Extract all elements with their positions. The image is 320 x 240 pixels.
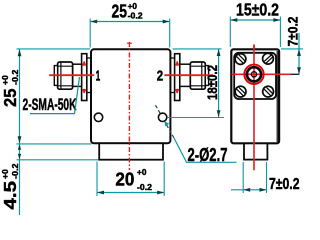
svg-text:18±0.2: 18±0.2 xyxy=(204,65,220,100)
connector J2 centerline xyxy=(164,74,213,76)
dim 7 top right: dimension line xyxy=(298,33,300,74)
front view bottom step xyxy=(99,143,163,159)
dim 20 bottom: dimension line xyxy=(97,192,164,194)
connector J2 end cap xyxy=(205,66,208,86)
screw bottom-right xyxy=(263,86,274,97)
connector J2 flange plate xyxy=(175,54,180,101)
dim 4.5 left: arrows xyxy=(18,144,21,150)
front view body outline xyxy=(91,49,170,143)
dim 25 left: dimension line xyxy=(19,49,21,215)
svg-text:7±0.2: 7±0.2 xyxy=(285,16,301,46)
connector J2 hex chamfer xyxy=(201,63,203,89)
svg-text:-0.2: -0.2 xyxy=(10,163,20,179)
dim 18 right: extension lines xyxy=(167,49,224,118)
side view flange square xyxy=(234,53,276,99)
svg-text:+0: +0 xyxy=(128,2,138,11)
label 2-SMA-50K leader xyxy=(30,77,80,114)
dim 25 left: arrows xyxy=(18,49,22,56)
label 2-D2.7 leader arrow xyxy=(164,121,169,126)
svg-text:1: 1 xyxy=(96,69,101,85)
connector J1 barrel xyxy=(73,64,82,86)
mounting hole left xyxy=(94,113,102,121)
svg-text:-0.2: -0.2 xyxy=(10,69,20,85)
dim 25 top: text xyxy=(112,1,144,21)
connector J2 barrel xyxy=(180,64,191,86)
dim 25 top: extension lines xyxy=(90,19,170,48)
side view horizontal centerline xyxy=(232,73,292,75)
connector J1 hex nut xyxy=(58,62,73,89)
label 2-D2.7 leader dashed part upper xyxy=(156,105,161,114)
svg-text:-0.2: -0.2 xyxy=(137,183,153,192)
connector J2 boss lines xyxy=(171,58,175,93)
dim 18 right: dimension line xyxy=(218,49,220,117)
side view vertical centerline xyxy=(253,45,255,171)
front view centerline top tick xyxy=(127,42,132,44)
dim 25 left: text xyxy=(0,69,20,107)
front view vertical centerline xyxy=(128,42,130,170)
screw top-left xyxy=(235,54,246,65)
dim 18 right: text xyxy=(204,65,220,100)
svg-text:+0: +0 xyxy=(137,168,147,177)
dim 20 bottom: text xyxy=(115,168,152,192)
side view centerline black extension xyxy=(291,73,300,75)
svg-text:7±0.2: 7±0.2 xyxy=(269,176,300,193)
connector J1 end cap xyxy=(54,66,57,86)
side view bottom step xyxy=(244,143,267,159)
dim 7 top right: extension line xyxy=(281,48,303,50)
dim 18 right: arrows xyxy=(217,49,221,56)
dim 25 top: dimension line xyxy=(90,21,170,23)
svg-text:4.5: 4.5 xyxy=(0,181,20,210)
dim 15 top: extension lines xyxy=(230,17,280,48)
connector J1 hex facets xyxy=(58,66,72,86)
mounting hole right xyxy=(158,113,166,121)
connector J2 flange hole marks xyxy=(176,62,179,94)
dim 7 top right: text xyxy=(285,16,301,46)
dim 7 bottom: extension lines xyxy=(243,162,266,193)
svg-text:+0: +0 xyxy=(0,169,10,179)
connector face red ring xyxy=(244,65,263,84)
label 2-D2.7 leader dashed part lower xyxy=(167,125,174,138)
side view right inner edge xyxy=(276,51,278,142)
connector J1 flange hole marks xyxy=(83,62,86,94)
svg-text:25: 25 xyxy=(112,1,128,21)
svg-text:25: 25 xyxy=(0,88,20,107)
dim 20 bottom: arrows xyxy=(97,191,104,195)
connector J1 centerline xyxy=(49,74,94,76)
svg-text:2-SMA-50K: 2-SMA-50K xyxy=(23,96,77,114)
connector face outer circle xyxy=(247,67,261,81)
svg-text:2: 2 xyxy=(157,68,163,84)
label 2-D2.7 leader xyxy=(174,138,237,162)
side view centerline top arrow xyxy=(253,44,255,48)
dim 4.5 left: text xyxy=(0,163,20,209)
dim 7 top right: arrows xyxy=(297,49,301,56)
connector J2 hex facets xyxy=(191,66,205,86)
connector J1 boss lines xyxy=(87,58,91,93)
connector J2 hex nut xyxy=(190,62,205,89)
side view body outline xyxy=(231,49,279,143)
svg-text:+0: +0 xyxy=(0,75,10,85)
connector J1 hex chamfer xyxy=(60,63,62,89)
dim 7 bottom: arrows xyxy=(243,188,250,192)
connector face center dot xyxy=(253,73,255,75)
dim 15 top: dimension line xyxy=(230,19,280,21)
svg-text:2-Ø2.7: 2-Ø2.7 xyxy=(188,145,228,165)
svg-text:-0.2: -0.2 xyxy=(128,12,144,21)
connector J1 flange plate xyxy=(82,54,87,101)
dim 7 bottom: dimension line xyxy=(231,189,267,191)
svg-text:15±0.2: 15±0.2 xyxy=(236,0,279,19)
left extension lines xyxy=(17,49,99,160)
dim 15 top: arrows xyxy=(230,18,237,22)
screw bottom-left xyxy=(235,86,246,97)
svg-text:20: 20 xyxy=(115,170,134,190)
connector face center pin xyxy=(251,72,256,77)
dim 20 bottom: extension lines xyxy=(97,162,164,197)
screw top-right xyxy=(263,53,274,64)
dim 25 top: arrows xyxy=(90,20,97,24)
